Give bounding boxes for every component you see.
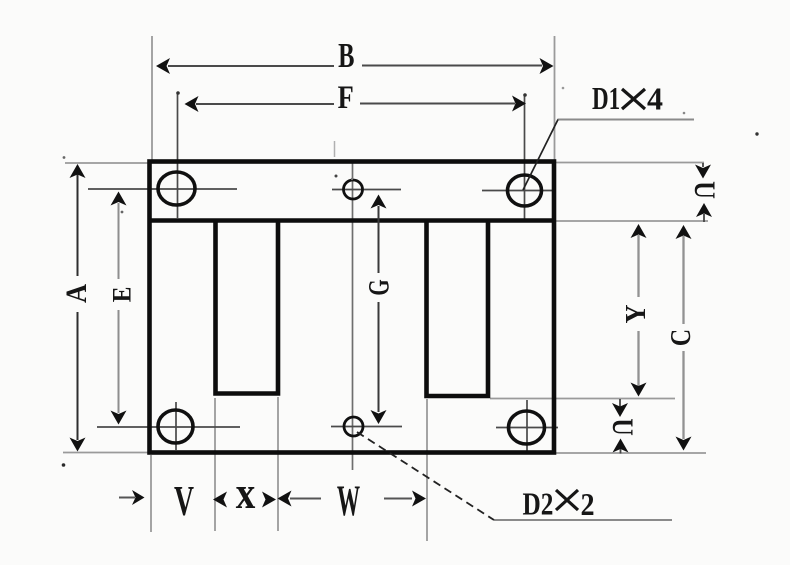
tick dot A ext [63,156,66,159]
svg-text:x: x [236,468,256,519]
lamination: right slot window [427,221,489,396]
extension line: below left edge [150,455,152,532]
hole D2 top-center [344,180,364,436]
lamination: left slot window [216,221,279,394]
dimension U top-right up arrowhead [696,203,712,217]
extension line: rect bottom to right [556,452,706,454]
dimension G bottom arrowhead [371,410,387,424]
dimension E line [118,203,120,413]
speck dots [335,175,338,178]
stray dot bottom-left [62,463,66,467]
leader underline D2 [494,519,672,521]
dimension B left arrowhead [156,58,170,74]
centerline: top-right hole vertical / F right extension [524,95,526,220]
tick dot F left [176,91,180,95]
hole D1 bottom-right [509,411,545,444]
hole D1 top-left [158,172,545,444]
centerline: top-left hole horizontal [88,188,237,190]
hole D1 bottom-left [158,410,193,443]
centerline: bottom-right hole horizontal [496,427,558,429]
lamination: bottom edge of top bar [150,218,555,223]
dimension V arrow [119,497,135,499]
dimension C bottom arrowhead [676,437,692,451]
dimension G top arrowhead [371,195,387,209]
extension line: bar bottom to right [556,220,708,222]
extension line: U top right, top edge [556,162,704,164]
extension line: below left slot left edge [214,398,216,531]
centerline: bottom-left hole vertical [175,402,177,450]
leader line D1 to top-right hole [523,120,558,191]
dimension U top-right down arrowhead [695,165,711,179]
centerline: top-center hole horizontal [332,189,401,191]
lamination outline: outer rectangle [150,162,555,453]
svg-text:E: E [108,287,136,303]
dimension X left arrowhead [213,492,227,508]
centerline: bottom-right hole vertical [526,400,528,452]
dimension G line [378,206,380,412]
dimension C top arrowhead [676,225,692,239]
dimension W left arrowhead [278,491,292,507]
svg-text:D1: D1 [592,81,620,117]
hole D2 bottom-center [344,417,363,436]
dimension X right arrowhead [262,492,276,508]
leader line D2 dashed to bottom-center hole [357,432,494,520]
dimension A bottom arrowhead [70,438,86,452]
hole D1 top-right [508,175,542,206]
svg-text:U: U [688,181,721,199]
extension line: A top horizontal [65,162,148,164]
dimension B line [168,65,542,68]
svg-text:F: F [338,79,354,115]
svg-text:D2: D2 [523,487,554,523]
svg-text:G: G [362,279,396,295]
svg-text:C: C [665,329,696,346]
dimension E bottom arrowhead [111,411,127,425]
centerline: bottom-left hole horizontal [97,426,240,428]
extension line: A bottom horizontal [63,452,148,454]
svg-text:2: 2 [581,486,595,522]
svg-text:A: A [61,283,94,303]
dimension C line [682,236,684,439]
dimension A line [77,172,79,440]
centerline: top-right hole horizontal [482,190,552,192]
svg-text:W: W [337,478,360,525]
centerline: middle vertical through small holes [352,163,354,470]
extension line: B left vertical [63,36,708,541]
extension line: slot bottom to right [490,398,675,400]
dimension U bottom-right up arrowhead [613,439,629,453]
extension line: B right vertical [554,36,556,160]
dimension F left arrowhead [185,96,199,112]
dimension A top arrowhead [70,164,86,178]
extension line: below right slot left edge [426,399,428,541]
label D2x2 [523,486,595,522]
label D1x4 [592,81,663,118]
svg-text:Y: Y [620,304,651,323]
dimension Y bottom arrowhead [631,383,647,397]
svg-text:U: U [606,418,639,435]
extension line: below left slot right edge [277,397,279,531]
svg-text:4: 4 [647,81,663,117]
dimension F line [196,103,515,106]
dimension B right arrowhead [540,58,554,74]
leader underline D1 [558,119,695,121]
centerline: bottom-center hole horizontal [331,426,402,428]
dimension Y top arrowhead [631,224,647,238]
centerline: top-left hole vertical / F left extension [88,93,558,470]
svg-text:B: B [338,36,354,75]
svg-text:V: V [174,477,194,524]
dimension E top arrowhead [111,192,127,206]
dimension F right arrowhead [512,96,526,112]
tick dot F right [523,93,527,97]
dimension U bottom-right down arrowhead [619,399,621,407]
dimension Y line [637,235,639,386]
dimension W right arrowhead [384,498,412,500]
stray scan mark above outline [334,141,336,157]
